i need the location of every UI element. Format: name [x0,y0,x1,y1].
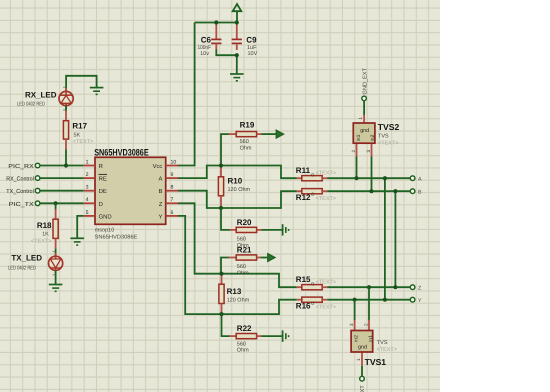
svg-text:560: 560 [237,341,246,347]
wire R21 left leg to node Z [221,258,230,274]
svg-text:1: 1 [86,159,89,165]
svg-text:R18: R18 [37,221,52,230]
svg-text:3: 3 [349,323,354,326]
resistor R10 [218,166,223,209]
pin 3 DE [84,185,107,196]
junction TVS1 in2 on node Y [353,298,357,302]
svg-text:RX_LED: RX_LED [25,90,57,99]
wire node Z from pin 7 [178,203,297,287]
svg-text:TVS: TVS [377,340,388,346]
ground under C9 [230,74,244,81]
resistor R13 [219,274,224,314]
label R20 [237,218,252,249]
wire pin 5 to ground [77,216,83,238]
svg-text:9: 9 [171,172,174,178]
transistor TVS2 [351,115,376,158]
terminal B [410,189,422,196]
svg-text:R16: R16 [296,302,311,311]
svg-text:R12: R12 [296,193,311,202]
svg-text:1: 1 [356,358,361,361]
svg-text:8: 8 [171,185,174,191]
wire TVS2 in1 to node A [356,157,358,179]
label R15 [296,275,336,288]
svg-text:Ohm: Ohm [240,145,252,151]
svg-text:A: A [418,176,422,182]
capacitor C6 [211,24,221,51]
svg-text:TX_LED: TX_LED [11,253,42,262]
wire PIC_RX to pin 1 [40,165,84,167]
svg-text:PIC_TX: PIC_TX [9,201,34,208]
svg-text:in1: in1 [368,335,374,342]
svg-text:0: 0 [311,301,314,307]
terminal TX_Control [6,188,40,195]
svg-text:gnd: gnd [358,345,367,351]
pin 1 R [84,159,103,170]
label R16 [296,301,336,311]
wire R18 to TX_LED [55,249,57,257]
svg-text:in1: in1 [356,134,362,141]
wire R22 left leg to node Y [222,314,231,336]
svg-text:R11: R11 [296,166,311,175]
svg-text:Ohm: Ohm [237,348,249,354]
arrow terminal after R19 [276,130,283,138]
pin 9 A [158,172,178,183]
svg-text:gnd: gnd [360,128,369,134]
pin 7 Z [159,197,178,208]
resistor R15 [297,285,327,290]
svg-text:2: 2 [363,323,368,326]
label RX_LED [17,90,57,107]
capacitor C9 [232,24,242,50]
junction A-Y on node Y [383,298,387,302]
svg-text:<TEXT>: <TEXT> [316,305,336,311]
svg-text:D: D [99,201,103,208]
svg-text:Y: Y [158,213,162,220]
junction node A at R10 top [219,163,223,167]
junction node Y at R13 bottom [219,312,223,316]
wire R19 to arrow terminal [262,133,277,135]
junction TVS2 in1 on node A [354,176,358,180]
svg-text:Vcc: Vcc [153,163,163,170]
ground under pin 5 [70,238,84,245]
svg-text:TVS2: TVS2 [378,122,400,132]
svg-text:<TEXT>: <TEXT> [378,141,398,147]
pin 2 RE [84,172,107,183]
label TVS2 [378,122,400,146]
svg-text:0: 0 [311,282,314,288]
wire TVS1 gnd pin to terminal [361,366,363,377]
wire node B to node Z [394,191,396,287]
svg-text:<TEXT>: <TEXT> [377,347,397,353]
svg-text:R21: R21 [237,245,252,254]
svg-text:DE: DE [99,188,107,195]
svg-text:10V: 10V [248,51,258,57]
label R13 [227,287,250,304]
label C6 [198,35,212,57]
wire node A from pin 9 [178,166,297,179]
wire top rail [195,22,237,24]
wire R22 to ground terminal [262,335,283,337]
svg-text:in2: in2 [354,335,360,342]
junction TVS1 in1 on node Z [367,285,371,289]
junction node B at R10 bottom [219,206,223,210]
resistor R22 [230,334,262,339]
wire Vcc rail to pin 10 [178,23,195,166]
ground terminal right of R22 [283,330,289,341]
svg-text:GND: GND [99,213,112,220]
svg-text:7: 7 [171,197,174,203]
wire R20 to ground terminal [262,229,283,231]
svg-text:<TEXT>: <TEXT> [316,196,336,202]
terminal PIC_RX [8,163,40,170]
svg-text:4: 4 [86,197,89,203]
label R19 [240,121,255,152]
label R11 [296,166,336,178]
terminal A [410,176,422,183]
arrow terminal after R21 [268,254,275,262]
svg-text:R17: R17 [72,122,87,131]
label R21 [237,245,252,276]
svg-text:R20: R20 [237,218,252,227]
label R22 [237,324,252,354]
svg-text:5: 5 [86,210,89,216]
svg-text:120 Ohm: 120 Ohm [228,187,251,193]
svg-text:R: R [99,163,103,170]
wire TX_Control to pin 3 [40,190,84,192]
svg-text:LED 0402 RED: LED 0402 RED [17,101,45,107]
label R18 [31,221,52,245]
wire PIC_TX to pin 4 [40,202,84,204]
svg-text:RX_Control: RX_Control [6,176,34,183]
terminal GND_EXT above TVS2 [362,67,368,100]
wire node A to node Y [384,178,386,300]
wire node B from pin 8 [178,191,297,208]
svg-text:Ohm: Ohm [237,270,249,276]
LED RX_LED [59,87,73,110]
svg-text:SN65HVD3086E: SN65HVD3086E [95,235,138,241]
junction B-Z on node B [393,189,397,193]
label R10 [228,177,251,193]
junction TVS2 in2 on node B [369,189,373,193]
junction A-Y on node A [383,176,387,180]
wire RX_LED top to ground [66,76,97,92]
svg-text:RE: RE [99,176,107,183]
label R17 [72,122,93,146]
svg-text:R15: R15 [296,275,311,284]
resistor R17 [63,111,68,150]
svg-text:<TEXT>: <TEXT> [316,171,336,177]
svg-text:R19: R19 [240,121,255,130]
terminal PIC_TX [9,201,40,208]
wire R11 to terminal A [327,177,410,179]
svg-text:B: B [418,189,422,195]
power terminal VCC arrow [233,4,242,23]
pin 8 B [158,185,178,196]
wire R12 to terminal B [327,190,410,192]
svg-text:LED 0402 RED: LED 0402 RED [8,265,36,271]
svg-text:3: 3 [366,150,371,153]
svg-text:msop10: msop10 [95,228,115,234]
svg-text:5K: 5K [74,132,81,138]
ground under TX_LED [49,285,63,292]
svg-text:PIC_RX: PIC_RX [8,163,34,170]
svg-text:R22: R22 [237,324,252,333]
svg-text:A: A [158,176,162,183]
resistor R19 [229,132,262,137]
ground right of RX_LED [90,88,104,95]
svg-text:1: 1 [358,117,363,120]
wire TVS2 top pin [363,101,365,115]
svg-text:3: 3 [86,185,89,191]
svg-text:TVS: TVS [378,134,389,140]
junction top rail C9 [235,20,239,24]
wire R15 to terminal Z [327,286,410,288]
wire LED to R17 [65,106,67,112]
wire RX_Control to pin 2 [40,177,84,179]
svg-text:R10: R10 [228,177,243,186]
svg-text:in2: in2 [370,134,376,141]
terminal Z [410,285,422,291]
op-amp U1 SN65HVD3086E body [94,146,166,240]
wire TVS1 in1 to node Z [368,287,370,320]
junction node Z at R13 top [219,272,223,276]
junction R18 on PIC_TX wire [54,201,58,205]
ground terminal right of R20 [283,224,289,235]
wire TX_LED to ground [55,270,57,284]
wire R17 to PIC_RX [65,150,67,166]
wire R18 from PIC_TX junction [55,203,57,210]
terminal Y [410,297,422,303]
svg-text:10: 10 [171,159,177,165]
label TVS1 [365,340,397,367]
svg-text:2: 2 [351,150,356,153]
svg-text:GND_EXT: GND_EXT [360,385,366,392]
svg-text:Z: Z [159,201,163,208]
svg-text:0: 0 [311,173,314,179]
svg-text:560: 560 [237,237,246,243]
svg-text:C6: C6 [201,35,212,44]
wire TVS1 in2 to node Y [354,300,356,321]
wire TVS2 in2 to node B [371,157,373,192]
resistor R16 [297,297,327,302]
junction R17 on PIC_RX wire [64,163,68,167]
svg-text:10v: 10v [200,51,209,57]
resistor R20 [230,227,262,232]
svg-text:C9: C9 [246,35,257,44]
wire R21 to arrow terminal [260,257,267,259]
svg-text:120 Ohm: 120 Ohm [227,297,250,303]
terminal GND_EXT below TVS1 [360,376,367,392]
junction B-Z on node Z [393,285,397,289]
pin 4 D [84,197,103,208]
svg-text:0: 0 [311,192,314,198]
label TX_LED [8,253,42,271]
resistor R21 [229,255,261,260]
LED TX_LED [49,252,63,275]
label C9 [246,35,257,57]
wire R19 left leg to node A [221,134,230,165]
svg-text:SN65HVD3086E: SN65HVD3086E [94,146,149,157]
svg-text:560: 560 [240,139,249,145]
svg-text:B: B [158,188,162,195]
svg-text:TX_Control: TX_Control [6,188,34,195]
pin 5 GND [84,210,112,221]
resistor R11 [297,176,327,181]
svg-text:<TEXT>: <TEXT> [31,238,51,244]
svg-text:2: 2 [86,172,89,178]
svg-text:6: 6 [171,210,174,216]
wire C6 bottom to C9 bottom [216,50,237,56]
junction C9 bottom [235,53,239,57]
svg-text:R13: R13 [227,287,242,296]
svg-text:Y: Y [418,298,422,304]
svg-text:<TEXT>: <TEXT> [73,139,93,145]
terminal RX_Control [6,176,40,183]
pin 10 Vcc [153,159,178,170]
svg-text:<TEXT>: <TEXT> [316,280,336,286]
junction top rail C6 [214,20,218,24]
svg-text:1K: 1K [42,231,49,237]
wire C9 to ground [236,55,238,74]
wire node Y from pin 6 [178,216,297,314]
pin 6 Y [158,210,178,221]
transistor TVS1 [349,320,374,366]
svg-text:TVS1: TVS1 [365,357,387,367]
svg-text:560: 560 [237,264,246,270]
wire R16 to terminal Y [327,299,410,301]
resistor R12 [297,189,327,194]
wire R20 left leg to node B [221,208,231,230]
svg-text:GND_EXT: GND_EXT [362,67,368,94]
label R12 [296,192,336,202]
resistor R18 [53,209,58,249]
